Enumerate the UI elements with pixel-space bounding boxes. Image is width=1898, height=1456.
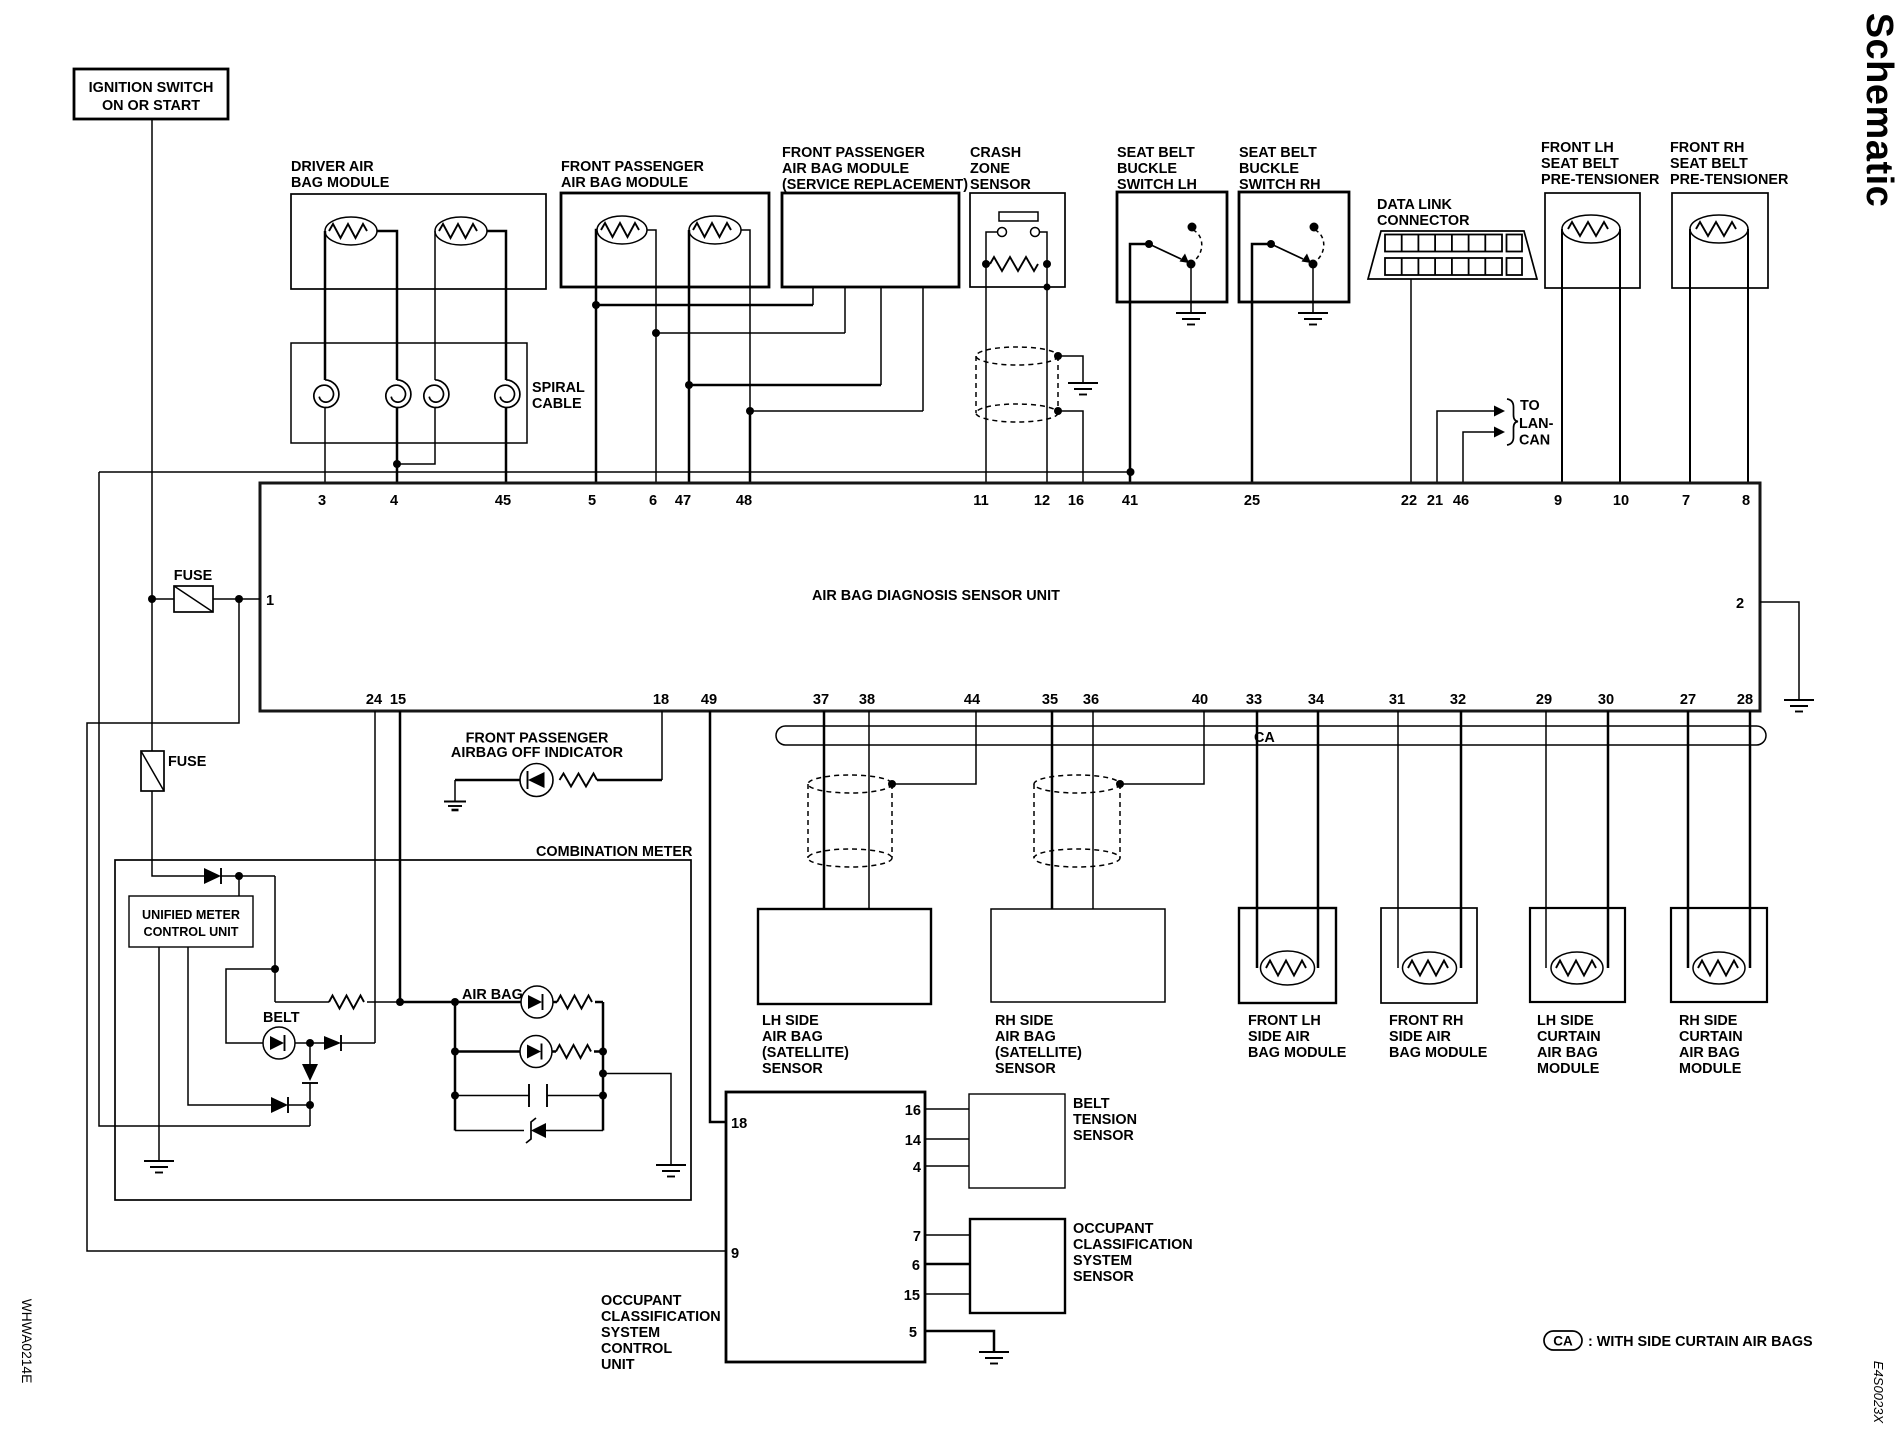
belt tension sensor box: [969, 1094, 1065, 1188]
wire indicator to ground: [455, 780, 520, 801]
wire fuse node to OCS pin 9 loop: [87, 599, 726, 1251]
resistor air bag 1: [553, 996, 603, 1009]
wire belt lamp to node: [295, 1039, 324, 1047]
svg-text:5: 5: [588, 493, 596, 509]
driver air bag module label: [291, 159, 390, 191]
wire shield RH to pin 40: [1116, 711, 1204, 788]
svg-text:22: 22: [1401, 493, 1417, 509]
wire shield LH to pin 44: [888, 711, 976, 788]
front LH pre-tensioner label: [1541, 140, 1660, 188]
svg-text:CONNECTOR: CONNECTOR: [1377, 213, 1470, 229]
CA bus pill: [776, 726, 1766, 745]
front RH side air bag module box: [1381, 908, 1477, 1003]
svg-text:FUSE: FUSE: [168, 754, 207, 770]
svg-text:2: 2: [1736, 596, 1744, 612]
service replacement module box: [782, 193, 959, 287]
front RH pre-tensioner label: [1670, 140, 1789, 188]
wire service pin1 stub: [812, 287, 814, 305]
svg-text:11: 11: [973, 493, 988, 509]
service replacement module label: [782, 145, 968, 193]
front passenger air bag module label: [561, 159, 704, 191]
svg-text:28: 28: [1737, 692, 1753, 708]
svg-text:SIDE AIR: SIDE AIR: [1389, 1029, 1451, 1045]
svg-text:RH SIDE: RH SIDE: [1679, 1013, 1738, 1029]
svg-text:AIRBAG OFF INDICATOR: AIRBAG OFF INDICATOR: [451, 745, 624, 761]
svg-text:FRONT LH: FRONT LH: [1248, 1013, 1321, 1029]
wire pin 29 to LH curtain module: [1545, 711, 1547, 968]
driver air bag module box: [291, 194, 546, 289]
diode D2 down: [302, 1043, 318, 1109]
svg-text:SEAT BELT: SEAT BELT: [1117, 145, 1195, 161]
front RH pre-tensioner box: [1672, 193, 1768, 288]
svg-text:37: 37: [813, 692, 829, 708]
svg-text:41: 41: [1122, 493, 1138, 509]
svg-text:SENSOR: SENSOR: [970, 177, 1031, 193]
svg-text:DRIVER AIR: DRIVER AIR: [291, 159, 374, 175]
svg-text:BAG MODULE: BAG MODULE: [291, 175, 390, 191]
spiral cable label: [532, 380, 585, 412]
LH side curtain air bag module box: [1530, 908, 1625, 1002]
wire squib2 left to spiral 3: [434, 231, 436, 380]
wire OCS 4 to belt tension sensor: [925, 1165, 969, 1167]
svg-text:DATA LINK: DATA LINK: [1377, 197, 1452, 213]
svg-text:SEAT BELT: SEAT BELT: [1670, 156, 1748, 172]
front passenger air bag module box: [561, 193, 769, 287]
svg-text:AIR BAG: AIR BAG: [462, 987, 523, 1003]
LH curtain module label: [1537, 1013, 1601, 1077]
zener diode row: [455, 1118, 603, 1143]
squib driver air bag 2: [435, 217, 487, 245]
svg-text:CONTROL: CONTROL: [601, 1341, 672, 1357]
svg-text:29: 29: [1536, 692, 1552, 708]
wire squib1 left to spiral 1: [324, 231, 327, 380]
svg-text:4: 4: [913, 1160, 922, 1176]
wire node48 to service pin4: [750, 410, 923, 412]
wire squib1 right to spiral 2: [377, 231, 397, 380]
RH curtain module label: [1679, 1013, 1743, 1077]
svg-text:LH SIDE: LH SIDE: [762, 1013, 819, 1029]
wire squib2 right to spiral 4: [487, 231, 506, 380]
shield cylinder RH satellite: [1034, 775, 1120, 867]
svg-text:CAN: CAN: [1519, 433, 1550, 449]
svg-text:SENSOR: SENSOR: [1073, 1269, 1134, 1285]
svg-text:27: 27: [1680, 692, 1696, 708]
wire UMCU right pin to D4: [188, 947, 271, 1105]
resistor air bag 2: [552, 1045, 603, 1058]
wire air bag node to LED1: [455, 1001, 521, 1004]
svg-text:4: 4: [390, 493, 399, 509]
svg-text:(SATELLITE): (SATELLITE): [995, 1045, 1082, 1061]
svg-text:SENSOR: SENSOR: [762, 1061, 823, 1077]
wire OCS 5 to ground: [925, 1331, 994, 1352]
svg-text:AIR BAG: AIR BAG: [995, 1029, 1056, 1045]
wire pin 15: [399, 711, 402, 1002]
wire data link to pin 22: [1410, 279, 1412, 483]
unified meter control unit box: [129, 896, 253, 947]
svg-text:SYSTEM: SYSTEM: [601, 1325, 660, 1341]
svg-text:SENSOR: SENSOR: [995, 1061, 1056, 1077]
svg-text:CRASH: CRASH: [970, 145, 1021, 161]
OCS right pin labels: [904, 1103, 922, 1341]
wire pin 24: [374, 711, 376, 1043]
svg-text:AIR BAG: AIR BAG: [1679, 1045, 1740, 1061]
svg-text:7: 7: [913, 1229, 921, 1245]
svg-text:FUSE: FUSE: [174, 568, 213, 584]
data link connector label: [1377, 197, 1470, 229]
wire fp squib1 right to pin 6: [647, 230, 660, 483]
wire feed node down: [271, 876, 279, 1002]
wire belt lamp loop: [226, 969, 275, 1043]
svg-text:7: 7: [1682, 493, 1690, 509]
ground switch RH: [1298, 313, 1328, 325]
spiral 2: [386, 380, 411, 408]
squib pre-tensioner RH: [1690, 215, 1748, 243]
wire fuse 1 to pin 1: [213, 595, 260, 603]
svg-text:SENSOR: SENSOR: [1073, 1128, 1134, 1144]
svg-text:TENSION: TENSION: [1073, 1112, 1137, 1128]
wire switch RH to pin 25: [1252, 244, 1271, 483]
svg-text:(SERVICE REPLACEMENT): (SERVICE REPLACEMENT): [782, 177, 968, 193]
LH side air bag satellite sensor box: [758, 909, 931, 1004]
wire fp squib2 left to pin 47: [685, 230, 693, 483]
spiral 3: [424, 380, 449, 408]
wire node6 to service pin2: [656, 332, 845, 334]
svg-text:FRONT RH: FRONT RH: [1389, 1013, 1463, 1029]
svg-text:AIR BAG: AIR BAG: [1537, 1045, 1598, 1061]
occupant classification system sensor label: [1073, 1221, 1193, 1285]
wire ignition feed down: [151, 119, 153, 751]
svg-text:LH SIDE: LH SIDE: [1537, 1013, 1594, 1029]
spiral cable box: [291, 343, 527, 443]
wire pin 46 to CAN arrow: [1463, 427, 1505, 484]
svg-text:46: 46: [1453, 493, 1469, 509]
svg-text:E4S0023X: E4S0023X: [1871, 1361, 1886, 1424]
svg-text:40: 40: [1192, 692, 1208, 708]
capacitor row: [455, 1084, 603, 1107]
svg-text:SPIRAL: SPIRAL: [532, 380, 585, 396]
LED air bag 1: [521, 986, 553, 1018]
wire crash left to pin 11: [985, 264, 987, 483]
svg-text:12: 12: [1034, 493, 1050, 509]
svg-text:SIDE AIR: SIDE AIR: [1248, 1029, 1310, 1045]
svg-text:33: 33: [1246, 692, 1262, 708]
svg-text:CLASSIFICATION: CLASSIFICATION: [601, 1309, 721, 1325]
svg-text:16: 16: [905, 1103, 921, 1119]
svg-text:9: 9: [731, 1246, 739, 1262]
svg-text:: WITH SIDE CURTAIN AIR BAGS: : WITH SIDE CURTAIN AIR BAGS: [1588, 1334, 1813, 1350]
RH satellite sensor label: [995, 1013, 1082, 1077]
svg-text:15: 15: [904, 1288, 920, 1304]
crash zone sensor label: [970, 145, 1031, 193]
shield cylinder LH satellite: [808, 775, 892, 867]
wire shield bottom to pin 16: [1054, 407, 1083, 483]
squib front RH side module: [1403, 952, 1457, 984]
svg-text:(SATELLITE): (SATELLITE): [762, 1045, 849, 1061]
CA legend pill: [1544, 1331, 1582, 1350]
wire node48 down to pin 48: [749, 411, 752, 483]
wire D1 to lamp feed node: [221, 872, 275, 880]
pin labels top row: [318, 493, 1750, 509]
svg-text:TO: TO: [1520, 398, 1540, 414]
seat belt buckle switch RH box: [1239, 192, 1349, 302]
ground meter right: [656, 1165, 686, 1177]
svg-text:35: 35: [1042, 692, 1058, 708]
svg-text:RH SIDE: RH SIDE: [995, 1013, 1054, 1029]
svg-text:16: 16: [1068, 493, 1084, 509]
front passenger airbag off indicator label: [451, 731, 624, 762]
svg-text:44: 44: [964, 692, 981, 708]
svg-text:8: 8: [1742, 493, 1750, 509]
svg-text:UNIFIED METER: UNIFIED METER: [142, 908, 240, 922]
wire pin 18 to indicator: [661, 711, 663, 780]
wire node to left leg: [309, 1105, 311, 1126]
crash zone sensor contact right: [1031, 228, 1040, 237]
svg-text:AIR BAG MODULE: AIR BAG MODULE: [561, 175, 689, 191]
svg-text:ON OR START: ON OR START: [102, 98, 200, 114]
wire crash right to pin 12: [1044, 264, 1051, 483]
diode D5 belt to pin 24: [324, 1035, 375, 1051]
fuse F1: [174, 568, 213, 612]
svg-text:30: 30: [1598, 692, 1614, 708]
data link connector body: [1368, 231, 1537, 279]
svg-text:BELT: BELT: [1073, 1096, 1110, 1112]
seat belt buckle switch LH box: [1117, 192, 1227, 302]
crash zone sensor mass bar: [999, 212, 1038, 221]
svg-text:AIR BAG: AIR BAG: [762, 1029, 823, 1045]
wire OCS 14 to belt tension sensor: [925, 1138, 969, 1140]
LED front passenger airbag off indicator: [520, 764, 553, 797]
svg-text:6: 6: [649, 493, 657, 509]
svg-text:BELT: BELT: [263, 1010, 300, 1026]
wire pin 49 to OCS pin 18: [710, 711, 726, 1122]
LED belt lamp: [263, 1027, 295, 1059]
resistor belt feed: [275, 996, 404, 1009]
svg-text:ZONE: ZONE: [970, 161, 1010, 177]
wire pin 28 to RH curtain module: [1749, 711, 1752, 968]
wire OCS 15 to ocs sensor: [925, 1293, 970, 1295]
squib RH curtain module: [1693, 952, 1745, 984]
wire switch LH to ground: [1190, 264, 1192, 313]
fuse F2: [141, 751, 207, 791]
svg-text:BUCKLE: BUCKLE: [1239, 161, 1299, 177]
TO LAN-CAN label: [1519, 398, 1554, 449]
wire crash right contact: [1040, 232, 1048, 264]
wire pre-tensioner RH right to pin 8: [1747, 229, 1749, 483]
occupant classification system control unit label: [601, 1293, 721, 1373]
wire right lamp rail: [599, 1002, 607, 1131]
svg-text:32: 32: [1450, 692, 1466, 708]
LH satellite sensor label: [762, 1013, 849, 1077]
wire pin 21 to LAN arrow: [1437, 406, 1505, 484]
front LH pre-tensioner box: [1545, 193, 1640, 288]
LED air bag 2: [520, 1036, 552, 1068]
spiral 4: [495, 380, 520, 408]
svg-text:AIR BAG MODULE: AIR BAG MODULE: [782, 161, 910, 177]
svg-text:25: 25: [1244, 493, 1260, 509]
ground pin 2: [1784, 700, 1814, 712]
svg-text:34: 34: [1308, 692, 1325, 708]
squib fp 1: [597, 216, 647, 244]
svg-text:FRONT PASSENGER: FRONT PASSENGER: [782, 145, 925, 161]
wire OCS 7 to ocs sensor: [925, 1234, 970, 1236]
wire OCS 16 to belt tension sensor: [925, 1108, 969, 1110]
wire pin 27 to RH curtain module: [1687, 711, 1690, 968]
wire service pin4 stub: [922, 287, 924, 411]
squib fp 2: [689, 216, 741, 244]
wire crash left contact: [986, 232, 998, 264]
wire pre-tensioner LH left to pin 9: [1561, 229, 1563, 483]
svg-text:31: 31: [1389, 692, 1405, 708]
occupant classification system sensor box: [970, 1219, 1065, 1313]
svg-text:FRONT PASSENGER: FRONT PASSENGER: [561, 159, 704, 175]
svg-text:38: 38: [859, 692, 875, 708]
svg-text:LAN-: LAN-: [1519, 416, 1554, 432]
svg-text:48: 48: [736, 493, 752, 509]
resistor crash zone: [982, 257, 1051, 271]
wire fp squib2 right to pin 48: [741, 230, 754, 415]
occupant classification system control unit box: [726, 1092, 925, 1362]
squib front LH side module: [1261, 951, 1315, 985]
wire lamp row to air bag node: [400, 998, 459, 1006]
wire pin 33 to front LH side module: [1256, 711, 1259, 968]
svg-text:47: 47: [675, 493, 691, 509]
brace to LAN-CAN: [1507, 399, 1518, 445]
front LH side module label: [1248, 1013, 1347, 1061]
svg-text:OCCUPANT: OCCUPANT: [1073, 1221, 1154, 1237]
wire spiral2 to pin 4: [396, 407, 399, 483]
wire rail to meter ground: [603, 1074, 671, 1166]
svg-text:UNIT: UNIT: [601, 1357, 635, 1373]
ground indicator: [444, 802, 466, 811]
ground OCS 5: [979, 1352, 1009, 1364]
svg-text:SEAT BELT: SEAT BELT: [1541, 156, 1619, 172]
svg-text:3: 3: [318, 493, 326, 509]
ground crash shield: [1068, 383, 1098, 395]
seat belt buckle switch LH label: [1117, 145, 1197, 193]
svg-text:45: 45: [495, 493, 511, 509]
svg-text:CABLE: CABLE: [532, 396, 582, 412]
front RH side module label: [1389, 1013, 1488, 1061]
wire node5 to service pin1: [596, 304, 813, 307]
wire pin 38 to LH satellite sensor: [868, 711, 870, 909]
svg-text:MODULE: MODULE: [1679, 1061, 1742, 1077]
svg-text:18: 18: [653, 692, 669, 708]
seat belt buckle switch RH label: [1239, 145, 1321, 193]
wire pin 31 to front RH side module: [1397, 711, 1399, 968]
svg-text:COMBINATION METER: COMBINATION METER: [536, 844, 693, 860]
wire long horizontal to switch LH node: [99, 471, 1131, 473]
front LH side air bag module box: [1239, 908, 1336, 1003]
wire node47 to service pin3: [689, 384, 881, 387]
svg-text:CURTAIN: CURTAIN: [1679, 1029, 1743, 1045]
svg-text:15: 15: [390, 692, 406, 708]
svg-text:6: 6: [912, 1258, 920, 1274]
wire left lamp rail: [451, 1002, 459, 1131]
svg-text:BUCKLE: BUCKLE: [1117, 161, 1177, 177]
ground switch LH: [1176, 313, 1206, 325]
ignition switch box: [74, 69, 228, 119]
pin labels bottom row: [366, 692, 1753, 708]
combination meter box: [115, 860, 691, 1200]
diode D1 ignition feed: [204, 868, 221, 884]
diode D4: [271, 1097, 310, 1113]
wire pin 2 to ground: [1760, 602, 1799, 700]
crash zone sensor contact left: [998, 228, 1007, 237]
wire pre-tensioner LH right to pin 10: [1619, 229, 1621, 483]
wire row 2 left: [455, 1050, 520, 1053]
wire fp squib1 left to pin 5: [592, 230, 600, 483]
spiral 1: [314, 380, 339, 408]
svg-text:OCCUPANT: OCCUPANT: [601, 1293, 682, 1309]
wire pin 37 to LH satellite sensor: [823, 711, 826, 909]
wire pre-tensioner RH left to pin 7: [1689, 229, 1691, 483]
svg-text:49: 49: [701, 692, 717, 708]
svg-text:IGNITION SWITCH: IGNITION SWITCH: [89, 80, 214, 96]
shield cylinder crash zone: [976, 347, 1058, 422]
svg-text:FRONT LH: FRONT LH: [1541, 140, 1614, 156]
svg-text:9: 9: [1554, 493, 1562, 509]
wire switch LH to pin 41: [1127, 244, 1150, 483]
RH side air bag satellite sensor box: [991, 909, 1165, 1002]
belt tension sensor label: [1073, 1096, 1137, 1144]
wire pin 36 to RH satellite sensor: [1092, 711, 1094, 909]
svg-text:FRONT RH: FRONT RH: [1670, 140, 1744, 156]
wire spiral1 to pin 3: [324, 407, 326, 483]
svg-text:WHWA0214E: WHWA0214E: [19, 1299, 34, 1384]
switch LH contacts: [1145, 223, 1202, 269]
squib driver air bag 1: [325, 217, 377, 245]
svg-text:14: 14: [905, 1133, 922, 1149]
svg-text:1: 1: [266, 593, 274, 609]
svg-text:MODULE: MODULE: [1537, 1061, 1600, 1077]
svg-text:SYSTEM: SYSTEM: [1073, 1253, 1132, 1269]
svg-text:CONTROL UNIT: CONTROL UNIT: [144, 925, 239, 939]
switch RH contacts: [1267, 223, 1324, 269]
svg-text:BAG MODULE: BAG MODULE: [1389, 1045, 1488, 1061]
svg-text:5: 5: [909, 1325, 917, 1341]
wire ignition to fuse 1: [148, 595, 174, 603]
wire service pin2 stub: [844, 287, 846, 333]
wire pin 35 to RH satellite sensor: [1051, 711, 1054, 909]
svg-text:24: 24: [366, 692, 383, 708]
squib LH curtain module: [1551, 952, 1603, 984]
svg-text:CURTAIN: CURTAIN: [1537, 1029, 1601, 1045]
svg-text:PRE-TENSIONER: PRE-TENSIONER: [1541, 172, 1660, 188]
wire spiral4 to pin 45: [505, 407, 508, 483]
wire shield top to ground: [1054, 352, 1083, 383]
squib pre-tensioner LH: [1562, 215, 1620, 243]
wire pin 30 to LH curtain module: [1607, 711, 1610, 968]
svg-text:PRE-TENSIONER: PRE-TENSIONER: [1670, 172, 1789, 188]
svg-text:10: 10: [1613, 493, 1629, 509]
svg-text:SEAT BELT: SEAT BELT: [1239, 145, 1317, 161]
svg-text:BAG MODULE: BAG MODULE: [1248, 1045, 1347, 1061]
wire service pin3 stub: [880, 287, 882, 385]
wire switch RH to ground: [1312, 264, 1314, 313]
wire pin 34 to front LH side module: [1317, 711, 1320, 968]
crash zone sensor box: [970, 193, 1065, 287]
wire UMCU left pin to ground: [158, 947, 160, 1161]
svg-text:Schematic: Schematic: [1858, 13, 1898, 208]
wire OCS 6 to ocs sensor: [925, 1263, 970, 1266]
svg-text:CLASSIFICATION: CLASSIFICATION: [1073, 1237, 1193, 1253]
wire fuse 2 to meter diode: [152, 791, 204, 876]
svg-text:AIR BAG DIAGNOSIS SENSOR UNIT: AIR BAG DIAGNOSIS SENSOR UNIT: [812, 588, 1060, 604]
wire stub to UMCU top: [238, 876, 240, 896]
wire pin 32 to front RH side module: [1460, 711, 1463, 968]
ground UMCU: [144, 1161, 174, 1173]
wire spiral3 joins pin4 wire: [393, 407, 435, 468]
